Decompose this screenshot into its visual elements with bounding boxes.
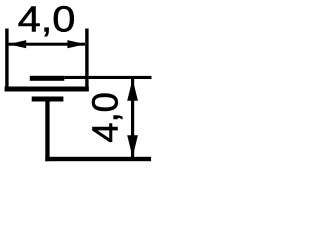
vertical plate stem E xyxy=(45,97,49,162)
arrowhead up xyxy=(127,79,138,101)
plate edge line D (thick, below A) xyxy=(32,97,64,102)
thin surface line C (extension for right dimension) xyxy=(64,76,151,79)
svg-text:4,0: 4,0 xyxy=(84,92,125,142)
arrowhead down xyxy=(127,135,138,157)
arrowhead right xyxy=(67,40,85,48)
dimension line (horizontal) xyxy=(8,43,85,46)
extension line right xyxy=(85,29,88,92)
plate A (thick horizontal line) xyxy=(5,87,89,92)
dimension label 4,0 (top) xyxy=(18,0,76,40)
dimension label 4,0 (right, rotated) xyxy=(84,92,125,142)
bottom plate F (thick horizontal line) xyxy=(45,157,151,161)
dimension line (vertical, right) xyxy=(131,77,134,157)
extension line left xyxy=(5,29,8,92)
plate edge line B (thick, upper) xyxy=(30,76,65,81)
arrowhead left xyxy=(8,40,26,48)
svg-text:4,0: 4,0 xyxy=(18,0,76,40)
